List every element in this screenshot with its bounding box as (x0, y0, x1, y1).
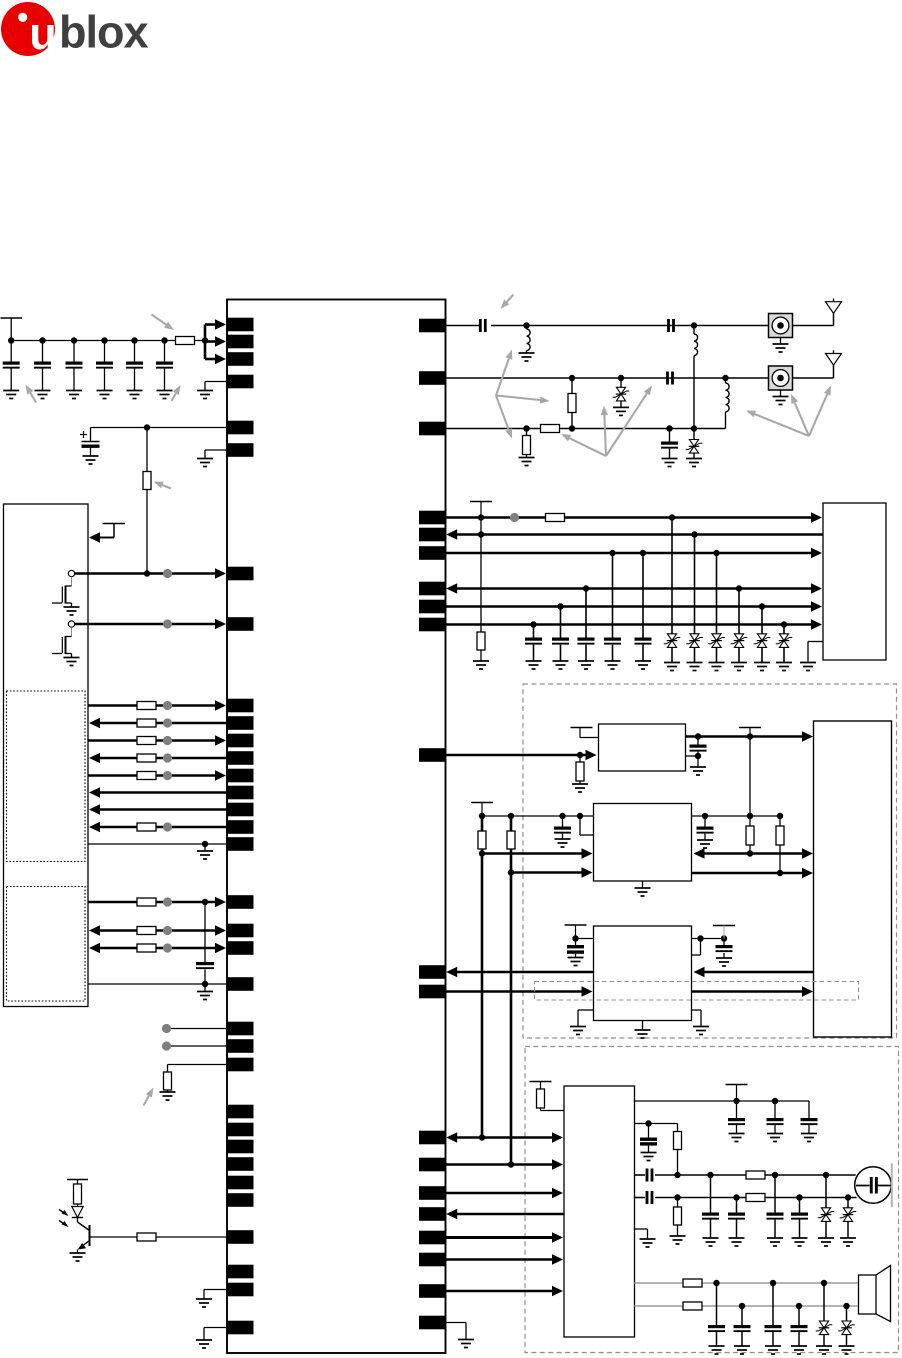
junction reg-out-c (747, 733, 753, 739)
junction on VCC rail (8, 337, 14, 343)
RF connector J1 (SMA) (769, 314, 793, 338)
U1 left-edge pin name labels (redacted) (227, 318, 254, 1335)
capacitor C64 (bias) (640, 1124, 657, 1153)
wire: VCC rail (11, 340, 175, 342)
dashed optional-route box (535, 982, 859, 1001)
wire: RF1 (ANT1 feed) (446, 325, 769, 327)
speaker LS1 (859, 1266, 891, 1322)
junction reg-out-a (695, 733, 701, 739)
VCC supply bar (1, 318, 23, 341)
wire: USB D+ (bidirectional) (89, 925, 226, 935)
TVS diode D43 (SIM ESD) (708, 553, 725, 663)
ground (D62) (840, 1238, 856, 1246)
TVS diode D41 (SIM ESD) (664, 518, 681, 663)
ground hook (U4 bottom-right) (692, 1010, 702, 1027)
junction VSIM-b (669, 514, 675, 520)
open-drain terminal (circle) node PWR_ON (68, 570, 74, 576)
ground (U4 bl) (570, 1027, 586, 1035)
ground (D43) (709, 663, 725, 671)
ground (C53) (697, 840, 713, 848)
ground (Q2 source) (64, 658, 80, 666)
ground hook (U1 GND pin, lower-left B) (204, 1328, 227, 1341)
capacitor C34 (shunt) (661, 429, 678, 459)
transistor Q1 (N-FET, PWR_ON driver) (52, 577, 72, 607)
svg-text:blox: blox (59, 7, 148, 58)
junction rail-f (747, 813, 753, 819)
ground (D31) (613, 407, 629, 415)
junction RF3-a (523, 425, 529, 431)
wire: 3V3 rail (right of U3) (692, 815, 781, 817)
capacitor C61 (728, 1101, 745, 1134)
decoupling capacitor C11 (3, 341, 20, 391)
junction spk2 (739, 1303, 850, 1309)
junction SIM_IO-a (478, 531, 484, 537)
wire: pull-up chain TXD down (481, 854, 484, 1138)
junction U4-l (572, 935, 578, 941)
ground (C13) (66, 391, 82, 399)
u-blox logo (1, 2, 148, 59)
junction micp-c (772, 1172, 778, 1178)
VCC pin bracket + arrows into U1 (205, 319, 226, 364)
junction on VCC rail (161, 337, 167, 343)
test point (gray) GPIO2 (162, 1041, 227, 1050)
RF connector J2 (SMA) (769, 366, 793, 390)
junction USB GND (202, 981, 208, 987)
junction U3-out-1 (747, 850, 753, 856)
wire: UART signal 6 (box A to U1) (89, 787, 227, 797)
wireless module U5 (right tall box) (814, 721, 892, 1037)
wire: MIC_P (635, 1174, 856, 1176)
inductor L33 (RF2 to RF3 end) (726, 378, 730, 429)
capacitor C51 (reg output) (690, 737, 707, 757)
capacitor C31 (series, RF1) (479, 319, 487, 332)
wire: UART signal 1 (box A to U1) (88, 700, 226, 710)
ground (D63) (816, 1346, 832, 1354)
junction spk1 (713, 1280, 827, 1286)
resistor R32 (shunt) (523, 429, 531, 458)
ground (R22) (160, 1092, 176, 1100)
wire: pull-up chain RXD down (510, 873, 513, 1165)
junction codec-1 (479, 1134, 485, 1140)
junction rail-a (479, 813, 485, 819)
microphone MK1 (855, 1163, 892, 1207)
capacitor C74 (spk filter) (791, 1306, 808, 1346)
junction micn-d (845, 1194, 851, 1200)
wire: U2 sense pin (686, 755, 699, 757)
resistor R67 (series SPK-) (683, 1302, 702, 1310)
capacitor C72 (spk filter) (734, 1306, 751, 1346)
capacitor C55 (U4 right) (716, 939, 733, 959)
junction rail-g (777, 813, 783, 819)
TVS diode D42 (SIM ESD) (686, 535, 703, 663)
UART interface block (dotted box) (7, 691, 86, 862)
junction SIM_CLK-b (640, 550, 646, 556)
junction micp-a (674, 1172, 680, 1178)
wire: J1 to antenna 1 (793, 313, 834, 325)
wire: SPK+ (gray) (635, 1282, 859, 1284)
wire: UART signal 2 (box A to U1) (89, 718, 227, 728)
ground (C55) (716, 958, 732, 966)
ground hook (SIM holder) (808, 642, 823, 663)
ground (D32) (686, 459, 702, 467)
junction rail-b (508, 813, 514, 819)
junction U4-r2 (721, 935, 727, 941)
resistor R66 (series SPK+) (683, 1279, 702, 1287)
wire: RXD into U3 (511, 867, 593, 877)
ground (C64) (641, 1153, 657, 1161)
annotation arrow (RF1 series cap) (501, 295, 514, 310)
ground (C42) (553, 661, 569, 669)
ground (U4 br) (693, 1027, 709, 1035)
wire: U2 output (3V3) (686, 731, 814, 741)
junction reg-out-b (695, 753, 701, 759)
junction SIM_IO-b (691, 531, 697, 537)
ground (U1 br) (458, 1340, 474, 1348)
cellular module U1 (main IC body) (227, 300, 446, 1354)
annotation arrows (antenna group) (746, 386, 831, 437)
TVS diode D32 (686, 429, 703, 459)
V3V3 flag (module supply) (739, 728, 761, 737)
transistor Q2 (N-FET, RESET driver) (52, 627, 72, 657)
decoupling capacitor C15 (126, 341, 143, 391)
capacitor C45 (SIM filter) (635, 553, 652, 661)
capacitor C63 (801, 1101, 818, 1134)
junction VSIM-a (478, 514, 484, 520)
open-drain terminal (circle) node RESET_N (68, 621, 74, 627)
antenna ANT2 (826, 350, 842, 365)
test point (gray) RESET_N (163, 619, 172, 628)
ground (UART) (197, 844, 213, 859)
resistor R21 (VBAT divider) (143, 428, 151, 574)
resistor R51 (pull-down) (576, 755, 584, 784)
junction micbias (645, 1120, 651, 1126)
annotation arrow (pull-down resistor) (144, 1088, 154, 1106)
capacitor C32 (series, RF1) (667, 319, 675, 332)
ground hook (U1 GND pin, top) (205, 382, 227, 391)
power flag arrow into block (89, 524, 125, 543)
wire: SIM_CLK (446, 548, 823, 558)
capacitor C44 (SIM filter) (604, 553, 621, 661)
GNSS companion U4 (594, 926, 692, 1021)
decoupling capacitor C13 (66, 341, 83, 391)
USB interface block (dotted box) (7, 887, 86, 1002)
TVS diode D45 (SIM ESD) (754, 607, 771, 663)
resistor R64 (MIC_N to gnd) (674, 1198, 682, 1237)
SIM card holder (connector box) (823, 503, 886, 660)
junction SIM_RST (583, 585, 742, 591)
wire: SIM_RST (bidirectional) (446, 583, 822, 593)
ground (C67) (703, 1238, 719, 1246)
wire: resistor to pin bracket (195, 340, 206, 342)
decoupling capacitor C16 (156, 341, 173, 391)
ground (lower-left B) (196, 1340, 212, 1348)
ground (D44) (731, 663, 747, 671)
capacitor C41 (SIM filter) (525, 625, 542, 662)
audio codec U6 (564, 1086, 635, 1337)
junction U3-out-2 (777, 870, 783, 876)
junction SIM_DET1 (557, 603, 765, 609)
wire: U1 to U4 (optional) (446, 986, 593, 996)
wire: MIC_N (635, 1197, 857, 1199)
ground (Q1 source) (64, 607, 80, 615)
ground (C70) (792, 1238, 808, 1246)
junction SIM_DET2 (530, 621, 787, 627)
junction VBAT (144, 424, 150, 430)
wire: codec signal 7 (446, 1286, 564, 1296)
resistor R61 (codec supply) (537, 1089, 565, 1111)
ground (R32) (519, 458, 535, 466)
wire: SIM_DET2 (446, 619, 823, 629)
annotation arrows (RF matching, left group) (496, 350, 550, 439)
junction on VCC rail (131, 337, 137, 343)
wire: SIM_DET1 (446, 601, 823, 611)
junction U3-in-1 (479, 850, 485, 856)
resistor R63 (series MIC_P) (746, 1171, 765, 1179)
junction micn-a (674, 1194, 680, 1200)
junction avdd-a (733, 1098, 739, 1104)
junction (reg input) (577, 752, 583, 758)
wire: codec signal 4 (to U1) (446, 1209, 564, 1219)
ground (C44) (605, 661, 621, 669)
resistor R52 (pull-up TXD) (478, 816, 486, 854)
TVS diode D44 (SIM ESD) (731, 589, 748, 663)
wire: UART signal 5 (box A to U1) (88, 770, 226, 780)
wire: UART signal 8 (box A to U1) (89, 822, 227, 832)
ground hook (U1 GND pin 2) (205, 450, 227, 459)
dashed option box (wireless companion section) (523, 684, 897, 1038)
resistor R55 (pull-up) (776, 816, 784, 873)
enable flag (U2) (571, 728, 599, 738)
ground (C71) (709, 1346, 725, 1354)
decoupling capacitor C14 (96, 341, 113, 391)
capacitor C67 (mic filter) (702, 1175, 719, 1238)
resistor R41 (VSIM series) (546, 514, 565, 522)
TVS diode D63 (spk ESD) (816, 1283, 833, 1346)
electrolytic capacitor (battery) C21 (80, 428, 100, 457)
wire: SPK- (gray) (635, 1305, 859, 1307)
V flag (U4 left) (565, 925, 587, 939)
capacitor C52 (rail) (554, 816, 571, 839)
wire: USB D- (bidirectional) (89, 943, 226, 953)
junction PWR_ON (144, 570, 150, 576)
junction RF3-b (569, 425, 575, 431)
ground (C12) (35, 391, 51, 399)
junction micp-b (707, 1172, 713, 1178)
wire: U4 right supply elbow (692, 939, 725, 956)
wire: UART signal 7 (box A to U1) (89, 804, 227, 814)
ground (C54) (568, 958, 584, 966)
TVS diode D62 (mic ESD) (840, 1198, 857, 1239)
junction codec-2 (508, 1161, 514, 1167)
capacitor C42 (SIM filter) (552, 607, 569, 662)
junction on VCC rail (71, 337, 77, 343)
junction RF3-d (691, 425, 697, 431)
resistor R54 (pull-up) (746, 816, 754, 854)
LED D1 (indicator) (72, 1207, 83, 1218)
wire: PWR_ON to U1 (75, 568, 226, 578)
wire: 3V3 down to rail (749, 737, 751, 817)
VSIM flag (470, 502, 492, 518)
wire: USB GND return (88, 983, 227, 985)
test point (gray) VSIM (510, 513, 519, 522)
resistor R23 (LED series) (74, 1184, 82, 1207)
ground (R42) (473, 661, 489, 669)
junction micn-b (733, 1194, 739, 1200)
ground (C74) (791, 1346, 807, 1354)
capacitor C65 (series MIC_P) (646, 1169, 654, 1182)
wire: J2 to antenna 2 (793, 365, 834, 378)
wire: VSIM (to SIM holder) (446, 512, 823, 522)
ground (C45) (635, 661, 651, 669)
junction rail-c (559, 813, 565, 819)
ground (C52) (555, 839, 571, 847)
annotation arrow (VCC resistor) (152, 315, 175, 331)
wire: SIM_IO (to U1) (446, 529, 823, 539)
wire: U5 to U4 RX (694, 967, 814, 977)
junction on VCC rail (39, 337, 45, 343)
ground (pin 2) (197, 459, 213, 467)
capacitor C62 (767, 1101, 784, 1134)
capacitor C33 (series, RF2) (666, 372, 674, 385)
junction micp-d (823, 1172, 829, 1178)
junction at VCC bracket (202, 337, 208, 343)
ground (C34) (662, 459, 678, 467)
ground (D41) (664, 663, 680, 671)
capacitor C53 (rail right) (697, 816, 714, 840)
ground (C69) (767, 1238, 783, 1246)
ground (R51) (572, 784, 588, 792)
annotation arrows (RF matching, mid group) (561, 386, 652, 457)
ground (C41) (526, 661, 542, 669)
test point (gray) GPIO1 (162, 1024, 227, 1033)
wire: codec signal 6 (446, 1254, 564, 1264)
ground (SIM holder) (800, 663, 816, 671)
wire: U3 to module RXD (692, 868, 814, 878)
wire: VUSB (box B to U1) (88, 897, 226, 907)
resistor R65 (series MIC_N) (746, 1194, 765, 1202)
ground (D46) (776, 663, 792, 671)
ground (D45) (754, 663, 770, 671)
junction RF3-c (666, 425, 672, 431)
ground (lower-left A) (196, 1299, 212, 1307)
wire: UART signal 3 (box A to U1) (88, 735, 226, 745)
junction SIM_CLK-c (713, 550, 719, 556)
wire: I2S/I2C 1 (bidirectional) (446, 1132, 563, 1142)
ground (C15) (127, 391, 143, 399)
light arrows into D1 (59, 1210, 69, 1228)
V1V8 flag (471, 803, 493, 817)
V flag (codec bias) (530, 1082, 552, 1090)
transistor Q3 (phototransistor) (78, 1218, 90, 1254)
series resistor R11 (VCC feed) (176, 337, 195, 345)
TVS diode D46 (SIM ESD) (776, 625, 793, 663)
inductor L32 (RF1 to RF3) (694, 326, 698, 429)
capacitor C68 (mic filter) (728, 1198, 745, 1239)
junction RF1-b (691, 322, 697, 328)
resistor R33 (series, RF3) (541, 425, 560, 433)
wire: RF3 (diversity/GNSS) (446, 428, 726, 430)
junction SIM_CLK-a (609, 550, 615, 556)
capacitor C66 (series MIC_N) (646, 1191, 654, 1204)
ground (codec) (640, 1239, 656, 1247)
junction rail-e (702, 813, 708, 819)
junction micn-c (796, 1194, 802, 1200)
wire: 1V8 rail (left of U3) (482, 815, 594, 817)
capacitor C69 (mic filter) (767, 1175, 784, 1238)
junction UART GND (202, 841, 208, 847)
ground (D64) (839, 1346, 855, 1354)
ground (C73) (765, 1346, 781, 1354)
ground (battery cap) (83, 456, 99, 464)
wire: codec AVDD rail (635, 1100, 810, 1102)
test point (gray) PWR_ON (163, 569, 172, 578)
wire: UART GND return (88, 843, 227, 845)
ground (U3) (635, 881, 651, 896)
ground (C62) (767, 1134, 783, 1142)
wire: codec signal 5 (446, 1232, 564, 1242)
ground (R64) (670, 1236, 686, 1244)
capacitor C71 (spk filter) (708, 1283, 725, 1346)
ground hook (U1 GND pin, lower-left A) (204, 1290, 227, 1300)
capacitor C22 (VUSB) (196, 902, 214, 984)
capacitor C73 (spk filter) (765, 1283, 782, 1346)
level shifter U3 (594, 804, 692, 882)
junction RF2-b (618, 375, 624, 381)
resistor R42 (bleed) (477, 518, 485, 662)
svg-text:u: u (29, 8, 57, 59)
application processor block (outer box) (4, 504, 89, 1007)
resistor R53 (pull-up RXD) (507, 816, 515, 873)
capacitor C43 (SIM filter) (578, 589, 595, 662)
ground (C11) (3, 391, 19, 399)
resistor R62 (bias feed) (674, 1124, 682, 1176)
junction U4-r1 (697, 935, 703, 941)
wire: RESET_N to U1 (75, 619, 226, 629)
annotation arrow (decoupling caps right) (172, 385, 181, 401)
TVS diode D64 (spk ESD) (838, 1306, 855, 1346)
U1 right-edge pin name labels (redacted) (419, 319, 446, 1330)
ground (J2) (773, 390, 789, 405)
decoupling capacitor C12 (34, 341, 51, 391)
wire: TXD into U3 (482, 848, 593, 858)
V flag (AVDD) (726, 1085, 748, 1102)
wire: U3 to module TXD (694, 848, 814, 858)
V flag (U4 right) (713, 926, 735, 939)
capacitor C70 (mic filter) (791, 1198, 808, 1239)
ground (L31) (519, 353, 535, 361)
wire: codec signal 3 (446, 1188, 564, 1198)
ground (D61) (818, 1238, 834, 1246)
ground (C72) (734, 1346, 750, 1354)
ground (C14) (97, 391, 113, 399)
resistor R22 (pull-down) (164, 1065, 228, 1093)
wire: VBAT to U1 (91, 427, 228, 429)
ground (C16) (157, 391, 173, 399)
ground (D42) (687, 663, 703, 671)
ground (USB) (197, 984, 213, 1000)
ground (C51) (690, 756, 706, 775)
ground (U4 bottom-center) (635, 1021, 651, 1039)
junction RF1-a (523, 322, 529, 328)
junction avdd-b (772, 1098, 778, 1104)
ground (C68) (729, 1238, 745, 1246)
wire: U4 TX to U1 (446, 967, 593, 977)
wire: Q3 base to U1 (90, 1233, 228, 1241)
wire: supply into U4 (576, 938, 594, 940)
inductor L31 (shunt) (527, 326, 531, 354)
ground (C63) (801, 1134, 817, 1142)
voltage regulator U2 (599, 724, 686, 771)
